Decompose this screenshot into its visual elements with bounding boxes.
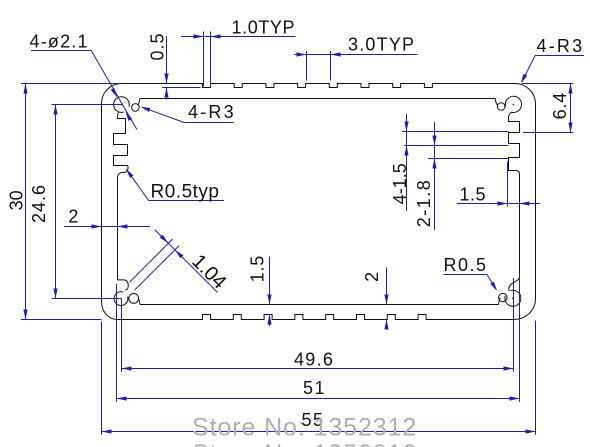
svg-text:6.4: 6.4 xyxy=(550,92,570,119)
svg-text:1.0TYP: 1.0TYP xyxy=(232,18,296,38)
svg-text:1.5: 1.5 xyxy=(248,255,268,282)
svg-text:Store No: 1352312: Store No: 1352312 xyxy=(192,414,417,442)
svg-text:1.5: 1.5 xyxy=(460,185,487,205)
svg-text:4-R3: 4-R3 xyxy=(537,36,585,56)
svg-text:24.6: 24.6 xyxy=(29,184,49,223)
svg-text:4-R3: 4-R3 xyxy=(188,102,236,122)
svg-text:4-1.5: 4-1.5 xyxy=(390,163,410,204)
svg-text:2: 2 xyxy=(362,272,382,282)
svg-text:4-ø2.1: 4-ø2.1 xyxy=(30,32,89,52)
svg-text:0.5: 0.5 xyxy=(148,32,168,60)
svg-text:3.0TYP: 3.0TYP xyxy=(348,34,415,54)
svg-text:1.04: 1.04 xyxy=(187,250,230,293)
svg-text:49.6: 49.6 xyxy=(294,349,334,369)
svg-text:Store No: 1352312: Store No: 1352312 xyxy=(192,440,417,447)
svg-text:51: 51 xyxy=(303,378,326,398)
svg-text:2-1.8: 2-1.8 xyxy=(414,179,434,228)
svg-text:2: 2 xyxy=(68,207,78,227)
svg-text:R0.5typ: R0.5typ xyxy=(151,182,220,203)
svg-text:30: 30 xyxy=(7,190,27,210)
svg-text:R0.5: R0.5 xyxy=(444,255,488,275)
